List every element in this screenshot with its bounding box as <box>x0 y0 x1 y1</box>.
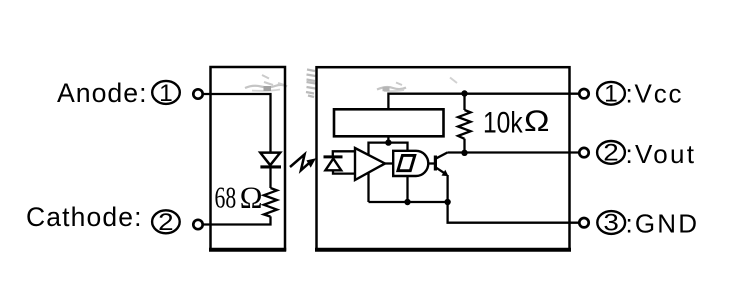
light emission arrow <box>290 154 316 170</box>
svg-text::Vcc: :Vcc <box>626 78 682 108</box>
pin number 2 (cathode, circled) <box>152 209 180 236</box>
svg-text:2: 2 <box>603 140 619 167</box>
svg-text::Vout: :Vout <box>626 139 695 169</box>
watermark smudge mid <box>306 70 316 98</box>
terminal circle cathode <box>193 220 202 229</box>
input-side package box <box>211 67 286 250</box>
wire regulator to internal rail <box>387 136 389 142</box>
junction dot gate/ground rail <box>404 199 410 205</box>
resistor 68 ohm zigzag <box>264 188 277 217</box>
Vout rail wire from collector <box>448 151 580 153</box>
GND wire <box>448 202 580 223</box>
resistor 10k ohm <box>463 94 465 110</box>
watermark smudge left <box>245 75 287 91</box>
Vcc rail wire <box>388 94 579 110</box>
pin number 1 (anode, circled) <box>152 80 180 107</box>
junction dot emitter/ground rail <box>444 199 450 205</box>
pin number 2 (Vout, circled) <box>597 140 625 167</box>
svg-text:68: 68 <box>215 180 237 215</box>
terminal circle Vout <box>579 148 588 157</box>
junction dot below regulator <box>385 139 391 145</box>
photodiode <box>324 151 356 173</box>
regulator block <box>334 109 444 136</box>
schmitt trigger gate <box>393 151 428 176</box>
terminal circle anode <box>193 89 202 98</box>
watermark smudge right <box>377 78 457 92</box>
junction dot resistor top / Vcc rail <box>461 90 467 96</box>
transistor Q1 <box>435 152 448 176</box>
pin number 3 (GND, circled) <box>597 210 625 237</box>
svg-text:Ω: Ω <box>240 180 263 215</box>
wire gate bottom to ground rail <box>406 176 408 202</box>
svg-text:2: 2 <box>158 209 174 236</box>
svg-text:3: 3 <box>603 210 619 237</box>
amplifier triangle <box>355 148 385 180</box>
terminal circle GND <box>579 218 588 227</box>
internal supply rail <box>369 143 408 202</box>
wire anode to LED <box>203 94 271 152</box>
internal ground rail <box>369 201 448 203</box>
output box thick bottom edge <box>315 248 571 252</box>
pin number 1 (Vcc, circled) <box>597 81 625 108</box>
input box thick bottom edge <box>209 248 286 252</box>
LED D1 <box>260 153 281 188</box>
svg-text:10k: 10k <box>483 105 523 139</box>
svg-text:Ω: Ω <box>524 105 550 138</box>
svg-text:Cathode:: Cathode: <box>26 202 142 232</box>
terminal circle Vcc <box>579 89 588 98</box>
output-side package box <box>317 67 570 249</box>
svg-text:Anode:: Anode: <box>57 78 147 108</box>
svg-text::GND: :GND <box>626 208 698 238</box>
svg-text:1: 1 <box>159 80 173 107</box>
wire gate to transistor base <box>428 162 434 164</box>
svg-text:1: 1 <box>604 81 618 108</box>
wire amp to schmitt gate <box>385 162 393 164</box>
junction dot resistor bottom / Vout rail <box>461 150 467 156</box>
wire cathode from resistor <box>203 216 271 224</box>
emitter wire down <box>446 175 448 202</box>
